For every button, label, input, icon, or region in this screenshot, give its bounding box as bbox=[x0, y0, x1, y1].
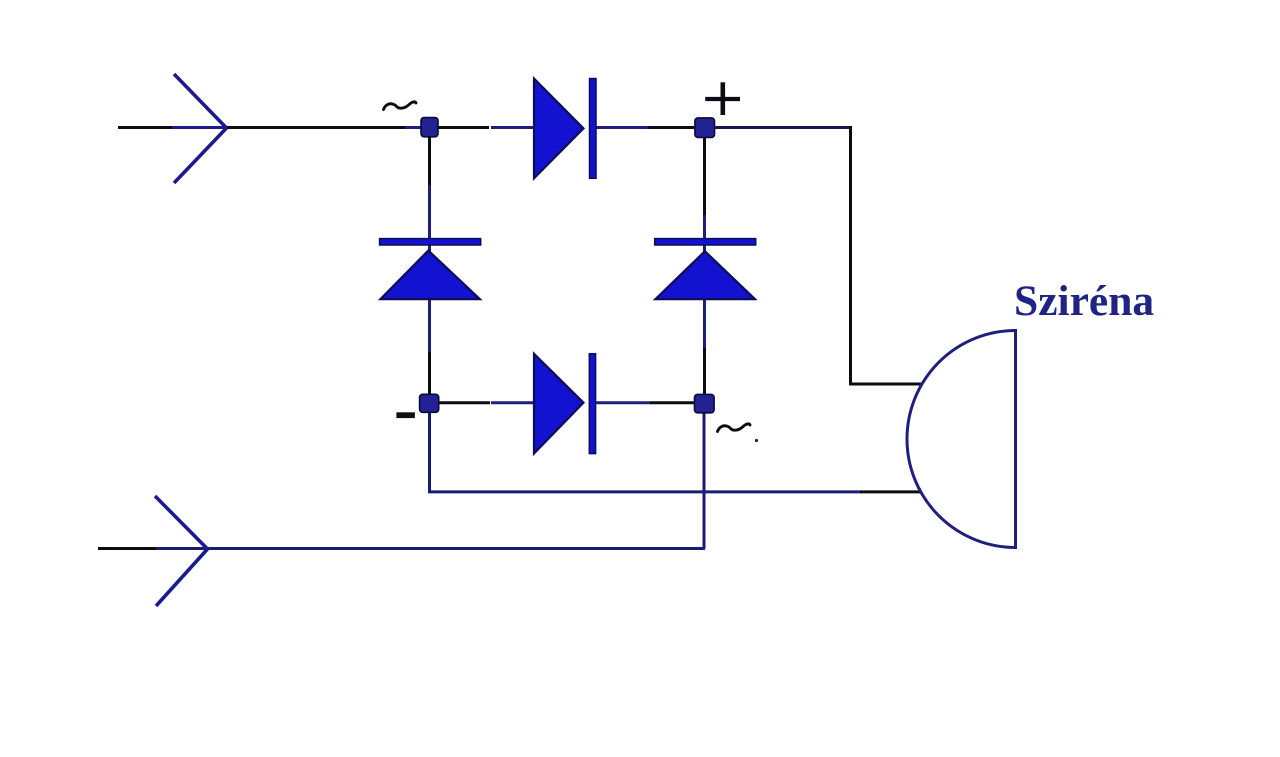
svg-text:Sziréna: Sziréna bbox=[1014, 277, 1154, 325]
